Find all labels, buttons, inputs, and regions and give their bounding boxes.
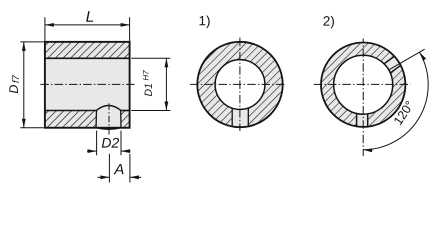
ring 2 bottom notch (357, 110, 368, 128)
bushing body grey fill (45, 42, 130, 128)
ring 2 vertical centerline (362, 39, 364, 157)
ring 2 inner circle (334, 55, 393, 114)
120 deg dimension arc (363, 51, 428, 152)
section horizontal centerline (40, 83, 134, 85)
ring 2 upper-right notch at 120 deg (381, 55, 402, 75)
ring 1 notch (grey slot at bottom) (232, 104, 248, 128)
dimension D2 (below notch) (87, 131, 131, 156)
dimension D1 H7 (right) (131, 58, 170, 110)
bore top line (45, 57, 130, 59)
bottom wall hatched band (45, 111, 130, 128)
notch vertical centerline (108, 103, 110, 136)
notch D2 in bottom wall (grey, covers hatch) (96, 106, 121, 130)
120 deg label (393, 100, 414, 125)
ring 1 inner circle (215, 60, 265, 110)
label 2) (323, 16, 333, 29)
top wall hatched band (45, 42, 130, 58)
ring 2 horizontal centerline (314, 83, 411, 85)
bore bottom line (interrupted by notch) (45, 110, 130, 112)
ring 2 outer circle (321, 42, 405, 126)
ring 1 vertical centerline (239, 38, 241, 131)
label 1) (200, 16, 210, 29)
dimension D f7 (left) (9, 42, 44, 128)
dimension L (45, 11, 130, 41)
120 deg dimension radial line (389, 49, 425, 70)
ring 1 horizontal centerline (190, 83, 285, 85)
ring 1 outer circle (197, 42, 282, 127)
dimension A (98, 154, 142, 183)
ring 2 hatched annulus (318, 40, 410, 132)
body outline (45, 42, 130, 128)
ring 1 hatched annulus (195, 39, 287, 131)
